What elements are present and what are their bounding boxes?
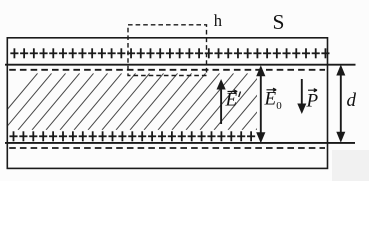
svg-text:h: h: [214, 11, 223, 30]
svg-text:P: P: [306, 91, 319, 112]
svg-text:0: 0: [276, 100, 282, 112]
svg-text:S: S: [273, 10, 285, 34]
svg-text:d: d: [347, 90, 357, 111]
svg-text:E: E: [264, 89, 277, 110]
